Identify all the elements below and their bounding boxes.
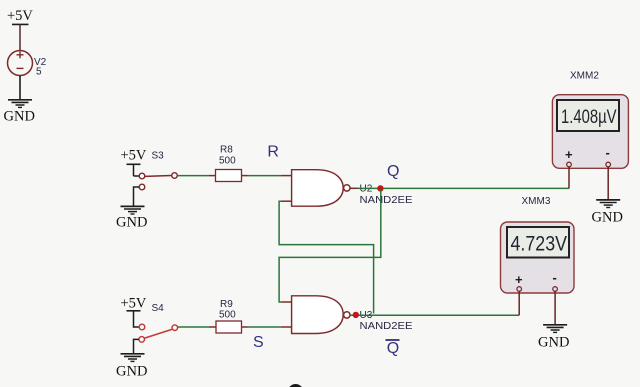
NAND gate U2 [292, 170, 350, 207]
svg-text:R: R [267, 144, 279, 161]
svg-text:500: 500 [219, 310, 236, 321]
svg-text:500: 500 [219, 156, 236, 167]
svg-text:5: 5 [36, 67, 42, 78]
NAND gate U3 [292, 296, 350, 334]
ground under XMM2 [592, 200, 623, 226]
svg-text:Q: Q [387, 163, 399, 180]
svg-text:-: - [606, 145, 610, 160]
ground under XMM3 [538, 325, 569, 351]
node label Qbar [386, 340, 400, 357]
svg-text:+5V: +5V [121, 148, 147, 164]
ground under S4 [116, 354, 147, 380]
ground under V2 [4, 100, 35, 125]
svg-text:1.408µV: 1.408µV [561, 106, 617, 128]
wire S3 pole to R8 [177, 175, 215, 177]
wire XMM3 plus terminal to Qbar [518, 291, 520, 315]
resistor R9 [216, 299, 242, 333]
ground under S3 [116, 206, 147, 230]
wire R9 to U3 input B [242, 326, 292, 328]
svg-text:GND: GND [116, 364, 147, 380]
svg-text:4.723V: 4.723V [511, 231, 568, 255]
wire XMM2 plus terminal to Q [568, 167, 570, 189]
wire U3 output to XMM3 [350, 314, 519, 316]
voltage source V2 [8, 51, 33, 76]
svg-text:GND: GND [538, 335, 569, 351]
power rail +5V at switch S3 [121, 148, 147, 177]
svg-text:S4: S4 [152, 303, 165, 314]
junction node Qbar [353, 312, 359, 318]
junction node Q [377, 185, 383, 191]
multimeter XMM3 body [501, 222, 575, 293]
svg-text:XMM2: XMM2 [570, 71, 599, 82]
svg-text:GND: GND [592, 210, 623, 226]
svg-text:S: S [253, 334, 264, 351]
switch S4 [139, 303, 178, 342]
power rail +5V at switch S4 [121, 296, 147, 328]
power rail +5V symbol at V2 [7, 8, 33, 51]
label U2 NAND2EE [360, 184, 413, 207]
svg-text:+5V: +5V [121, 296, 147, 312]
svg-text:R9: R9 [220, 299, 233, 310]
wire Q feedback to U3 input A [279, 190, 381, 302]
svg-text:NAND2EE: NAND2EE [360, 321, 413, 332]
multimeter XMM2 body [552, 95, 628, 169]
decorative blob bottom (cut-off circle) [288, 384, 304, 387]
wire R8 to U2 input A [242, 175, 292, 177]
label U3 NAND2EE [360, 310, 413, 332]
svg-text:S3: S3 [152, 151, 165, 162]
wire S3 bottom contact to ground [134, 187, 140, 206]
svg-text:XMM3: XMM3 [522, 196, 551, 207]
svg-text:Q: Q [387, 340, 399, 357]
resistor R8 [216, 145, 242, 182]
svg-text:+5V: +5V [7, 8, 33, 24]
svg-text:R8: R8 [220, 145, 233, 156]
wire XMM3 minus terminal to ground [554, 291, 556, 324]
wire U3 output feedback to U2 input B [279, 201, 374, 313]
svg-text:+: + [565, 147, 573, 162]
switch S3 [139, 151, 177, 190]
wire S4 pole to R9 [178, 326, 216, 328]
svg-text:NAND2EE: NAND2EE [360, 195, 413, 206]
wire V2 to ground [19, 76, 21, 100]
svg-text:+: + [515, 272, 523, 287]
svg-text:GND: GND [4, 109, 35, 125]
wire S4 bottom contact to ground [134, 339, 139, 353]
wire U2 output to node Q [350, 187, 569, 189]
svg-text:-: - [553, 270, 557, 285]
svg-text:GND: GND [116, 215, 147, 231]
label V2 / 5 [34, 57, 47, 78]
wire XMM2 minus terminal to ground [607, 167, 609, 200]
